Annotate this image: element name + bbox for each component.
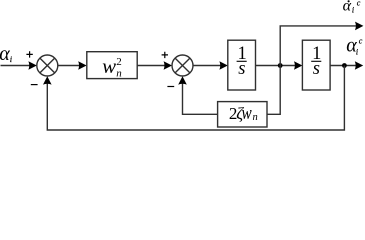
svg-text:n: n	[116, 67, 122, 79]
wire wn2 to summing junction S2	[137, 65, 165, 67]
label 1/s block 1	[237, 44, 247, 79]
svg-text:c: c	[359, 36, 363, 45]
minus sign at S2	[167, 86, 174, 88]
svg-text:s: s	[238, 59, 245, 79]
plus sign at S1	[26, 51, 32, 57]
label 1/s block 2	[311, 44, 321, 79]
plus sign at S2	[162, 52, 168, 58]
wire integrator 2 to output	[330, 65, 356, 67]
node junction dot between integrators	[278, 63, 283, 68]
node output junction dot	[342, 63, 347, 68]
svg-text:α: α	[0, 43, 10, 65]
svg-text:i: i	[352, 6, 354, 15]
label wn2	[102, 56, 122, 80]
wire damping block to S2	[183, 81, 218, 114]
svg-text:α: α	[343, 0, 352, 14]
svg-text:c: c	[357, 0, 361, 7]
node alpha_i^c output label	[346, 34, 362, 56]
wire node up and right to alpha-dot output	[280, 26, 356, 66]
block wn2	[87, 52, 137, 79]
svg-text:i: i	[356, 47, 358, 56]
wire node down to damping block	[267, 66, 280, 115]
block damping 2*zeta*wn	[218, 102, 267, 127]
svg-text:s: s	[313, 59, 320, 79]
label 2 zeta wn	[229, 103, 258, 124]
wire input to summing junction S1	[1, 65, 31, 67]
svg-text:w: w	[242, 103, 252, 124]
wire S2 to integrator block 1	[193, 65, 221, 67]
node alpha-dot output label	[343, 0, 361, 15]
svg-text:n: n	[253, 112, 258, 123]
summing junction S1	[37, 55, 58, 76]
block integrator 2 (1/s)	[302, 40, 330, 90]
minus sign at S1	[31, 84, 38, 86]
node alpha_i input label	[0, 43, 13, 65]
wire S1 to block wn2	[58, 65, 80, 67]
summing junction S2	[172, 55, 193, 76]
block integrator 1 (1/s)	[228, 40, 256, 90]
wire outer feedback output to S1	[47, 66, 344, 131]
svg-text:2: 2	[116, 56, 122, 68]
svg-text:w: w	[102, 57, 116, 78]
wire integrator 1 to integrator 2	[256, 65, 297, 67]
